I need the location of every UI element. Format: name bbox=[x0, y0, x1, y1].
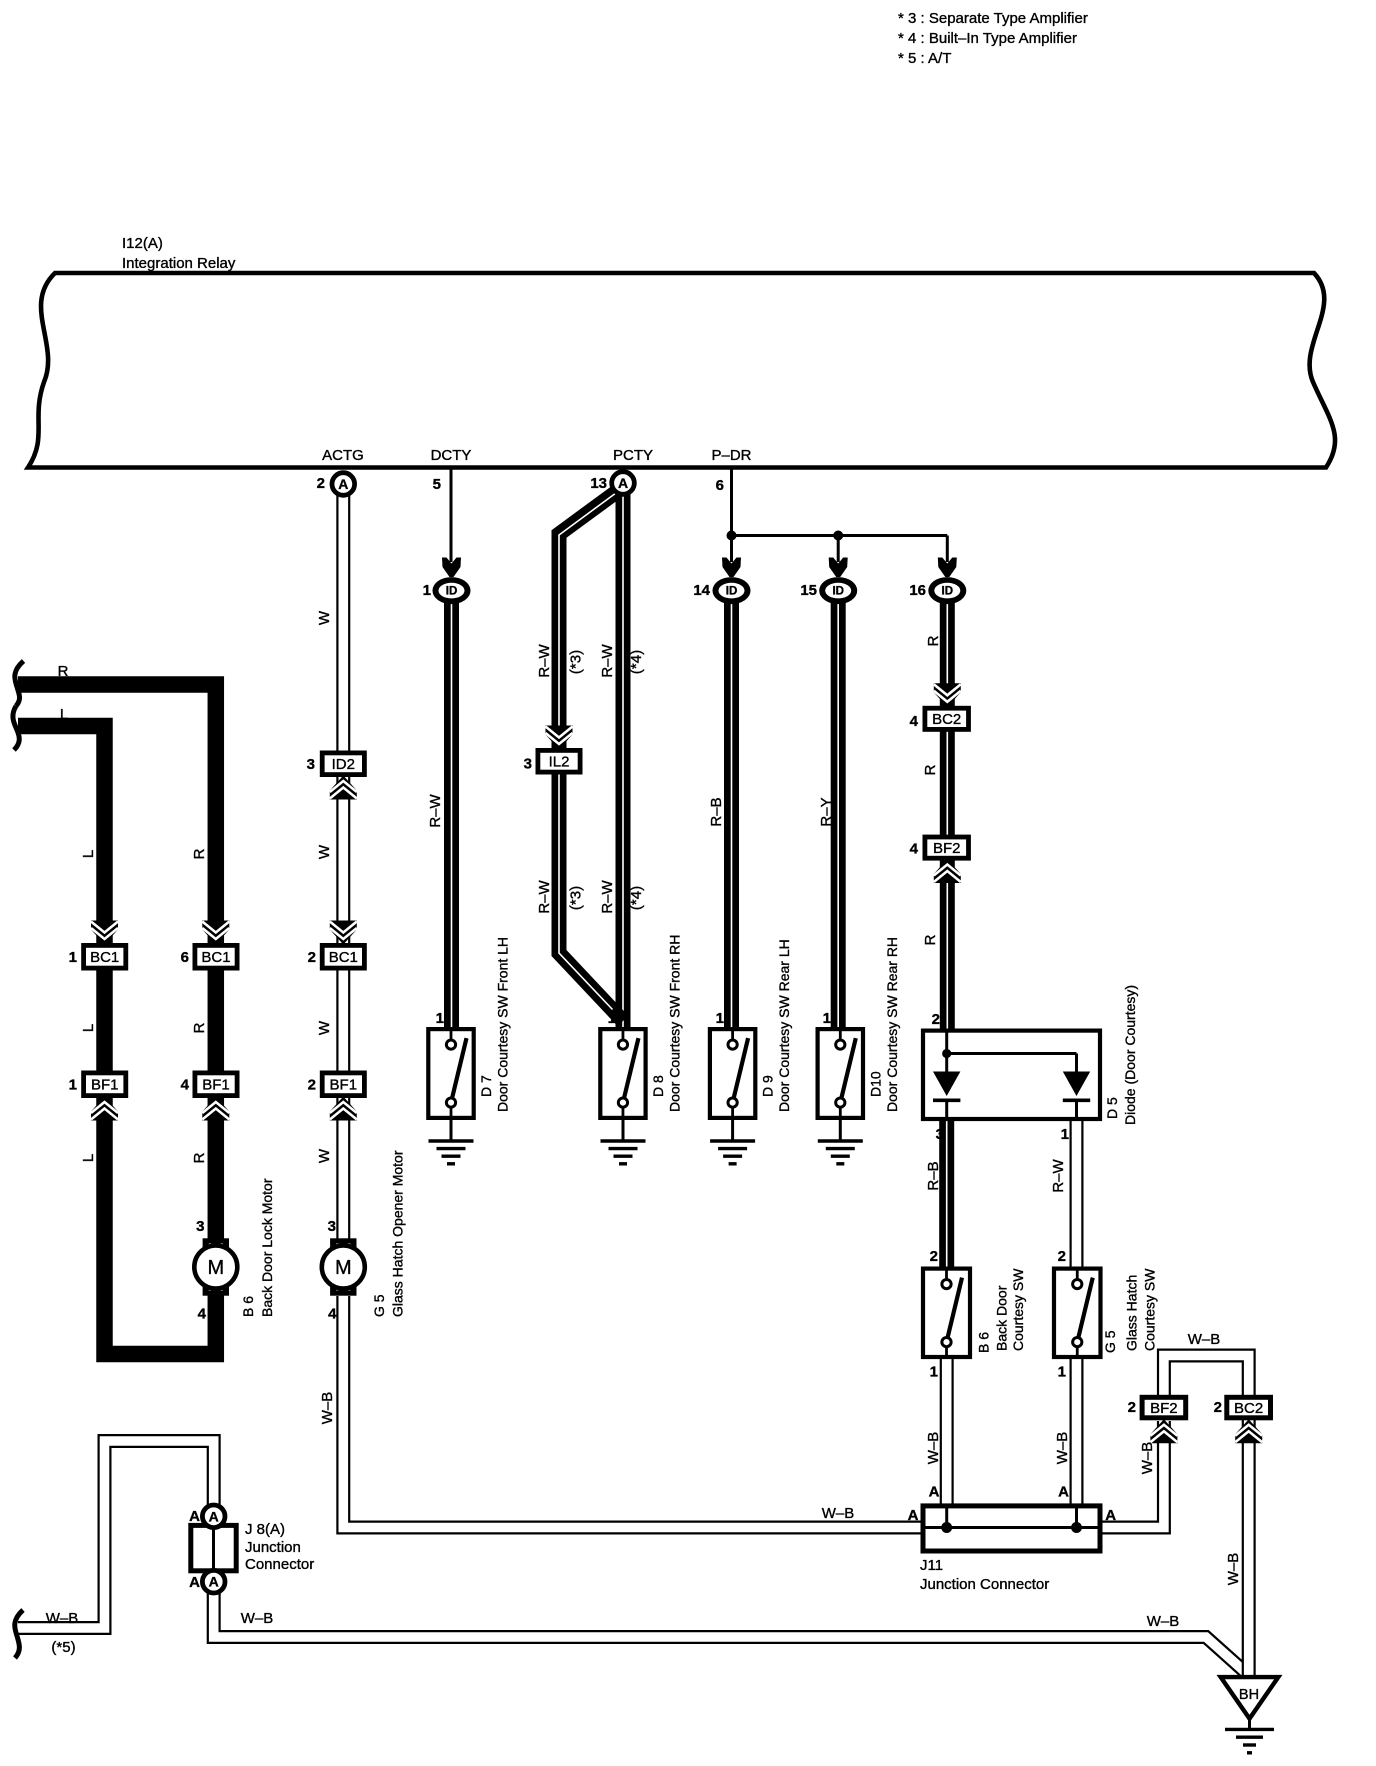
svg-text:Integration Relay: Integration Relay bbox=[122, 255, 236, 272]
svg-text:R: R bbox=[922, 764, 939, 775]
svg-text:13: 13 bbox=[590, 475, 607, 492]
svg-text:M: M bbox=[207, 1257, 224, 1279]
svg-text:I12(A): I12(A) bbox=[122, 235, 163, 252]
svg-text:2: 2 bbox=[317, 475, 325, 492]
svg-text:W–B: W–B bbox=[925, 1432, 942, 1465]
svg-text:BF2: BF2 bbox=[933, 840, 961, 857]
svg-text:A: A bbox=[929, 1484, 940, 1501]
svg-text:Door Courtesy SW Front RH: Door Courtesy SW Front RH bbox=[666, 935, 682, 1112]
svg-text:W–B: W–B bbox=[1054, 1432, 1071, 1465]
svg-text:R: R bbox=[925, 635, 942, 646]
svg-text:Connector: Connector bbox=[245, 1556, 314, 1573]
svg-text:2: 2 bbox=[308, 1077, 316, 1094]
svg-text:R: R bbox=[922, 934, 939, 945]
svg-text:W–B: W–B bbox=[822, 1505, 855, 1522]
svg-text:Glass Hatch: Glass Hatch bbox=[1124, 1275, 1140, 1351]
svg-text:A: A bbox=[908, 1507, 919, 1524]
svg-text:(*4): (*4) bbox=[628, 886, 645, 910]
svg-text:B 6: B 6 bbox=[976, 1332, 992, 1353]
svg-text:W: W bbox=[316, 610, 333, 625]
svg-text:W–B: W–B bbox=[1188, 1331, 1221, 1348]
svg-text:A: A bbox=[338, 476, 348, 492]
svg-text:ID: ID bbox=[446, 586, 458, 598]
svg-text:(*4): (*4) bbox=[628, 650, 645, 674]
svg-text:Junction Connector: Junction Connector bbox=[920, 1576, 1049, 1593]
svg-text:4: 4 bbox=[181, 1077, 190, 1094]
svg-text:W: W bbox=[316, 1020, 333, 1035]
svg-text:BC1: BC1 bbox=[329, 949, 358, 966]
svg-text:R–Y: R–Y bbox=[818, 797, 835, 826]
svg-text:Back Door: Back Door bbox=[994, 1285, 1010, 1351]
svg-text:Diode (Door Courtesy): Diode (Door Courtesy) bbox=[1122, 985, 1138, 1125]
svg-text:16: 16 bbox=[909, 582, 926, 599]
svg-text:J11: J11 bbox=[920, 1557, 943, 1574]
svg-text:R: R bbox=[58, 663, 69, 680]
svg-text:6: 6 bbox=[716, 477, 724, 494]
svg-text:(*3): (*3) bbox=[568, 886, 585, 910]
svg-text:3: 3 bbox=[307, 756, 315, 773]
svg-text:A: A bbox=[618, 475, 628, 491]
svg-text:A: A bbox=[1105, 1507, 1116, 1524]
svg-text:BC1: BC1 bbox=[90, 949, 119, 966]
svg-text:* 4 : Built–In Type Amplifier: * 4 : Built–In Type Amplifier bbox=[898, 30, 1077, 47]
svg-text:Glass Hatch Opener Motor: Glass Hatch Opener Motor bbox=[390, 1150, 406, 1317]
svg-text:Courtesy SW: Courtesy SW bbox=[1142, 1268, 1158, 1351]
svg-text:5: 5 bbox=[433, 476, 441, 493]
svg-text:P–DR: P–DR bbox=[711, 447, 751, 464]
svg-text:3: 3 bbox=[196, 1218, 204, 1235]
svg-text:W–B: W–B bbox=[241, 1610, 274, 1627]
svg-text:G 5: G 5 bbox=[371, 1294, 387, 1317]
svg-text:A: A bbox=[209, 1574, 219, 1590]
svg-text:R–W: R–W bbox=[599, 643, 616, 677]
svg-text:1: 1 bbox=[930, 1364, 938, 1381]
svg-text:(*3): (*3) bbox=[568, 650, 585, 674]
svg-text:* 3 : Separate Type Amplifier: * 3 : Separate Type Amplifier bbox=[898, 10, 1088, 27]
svg-text:Door Courtesy SW Front LH: Door Courtesy SW Front LH bbox=[495, 937, 511, 1112]
svg-text:Courtesy SW: Courtesy SW bbox=[1010, 1268, 1026, 1351]
svg-text:ID: ID bbox=[726, 586, 738, 598]
svg-text:Door Courtesy SW Rear LH: Door Courtesy SW Rear LH bbox=[776, 939, 792, 1112]
svg-text:6: 6 bbox=[181, 949, 189, 966]
svg-text:4: 4 bbox=[910, 841, 919, 858]
svg-text:1: 1 bbox=[716, 1010, 724, 1027]
svg-text:B 6: B 6 bbox=[240, 1296, 256, 1317]
svg-text:W–B: W–B bbox=[46, 1610, 79, 1627]
svg-text:BF1: BF1 bbox=[202, 1076, 230, 1093]
svg-text:D 8: D 8 bbox=[650, 1075, 666, 1097]
svg-text:R–W: R–W bbox=[536, 643, 553, 677]
svg-text:L: L bbox=[80, 1024, 97, 1032]
svg-text:2: 2 bbox=[930, 1248, 938, 1265]
svg-text:W–B: W–B bbox=[1139, 1442, 1156, 1475]
svg-text:A: A bbox=[189, 1508, 200, 1525]
svg-text:IL2: IL2 bbox=[549, 753, 570, 770]
svg-text:1: 1 bbox=[1061, 1126, 1069, 1143]
svg-text:D 9: D 9 bbox=[760, 1075, 776, 1097]
svg-text:1: 1 bbox=[423, 582, 431, 599]
svg-text:1: 1 bbox=[823, 1010, 831, 1027]
svg-text:Junction: Junction bbox=[245, 1539, 301, 1556]
svg-text:3: 3 bbox=[328, 1218, 336, 1235]
svg-text:Back Door Lock Motor: Back Door Lock Motor bbox=[259, 1178, 275, 1317]
svg-text:W: W bbox=[316, 844, 333, 859]
svg-text:2: 2 bbox=[308, 949, 316, 966]
svg-text:ACTG: ACTG bbox=[322, 447, 364, 464]
svg-text:4: 4 bbox=[198, 1306, 207, 1323]
svg-text:W: W bbox=[316, 1148, 333, 1163]
svg-text:1: 1 bbox=[69, 1077, 77, 1094]
svg-text:A: A bbox=[1058, 1484, 1069, 1501]
svg-text:G 5: G 5 bbox=[1102, 1330, 1118, 1353]
svg-text:ID: ID bbox=[942, 586, 954, 598]
svg-text:W–B: W–B bbox=[1147, 1613, 1180, 1630]
svg-text:BC2: BC2 bbox=[1234, 1400, 1263, 1417]
svg-text:A: A bbox=[189, 1574, 200, 1591]
svg-text:R–B: R–B bbox=[708, 797, 725, 826]
svg-text:3: 3 bbox=[936, 1126, 944, 1143]
svg-text:1: 1 bbox=[436, 1010, 444, 1027]
svg-text:R–B: R–B bbox=[925, 1161, 942, 1190]
svg-text:2: 2 bbox=[1128, 1399, 1136, 1416]
svg-text:1: 1 bbox=[1058, 1364, 1066, 1381]
svg-text:R: R bbox=[191, 1152, 208, 1163]
svg-text:D 7: D 7 bbox=[478, 1075, 494, 1097]
svg-text:L: L bbox=[80, 850, 97, 858]
svg-text:R: R bbox=[191, 848, 208, 859]
svg-text:3: 3 bbox=[524, 756, 532, 773]
svg-text:R–W: R–W bbox=[1050, 1158, 1067, 1192]
svg-text:L: L bbox=[60, 706, 68, 723]
svg-text:2: 2 bbox=[1214, 1399, 1222, 1416]
svg-text:W–B: W–B bbox=[1225, 1553, 1242, 1586]
svg-text:BF1: BF1 bbox=[91, 1076, 119, 1093]
svg-text:15: 15 bbox=[800, 582, 817, 599]
svg-text:BC2: BC2 bbox=[932, 711, 961, 728]
svg-text:4: 4 bbox=[328, 1306, 337, 1323]
svg-text:J 8(A): J 8(A) bbox=[245, 1521, 285, 1538]
svg-text:BC1: BC1 bbox=[201, 949, 230, 966]
svg-text:DCTY: DCTY bbox=[431, 447, 472, 464]
svg-text:A: A bbox=[209, 1508, 219, 1524]
svg-text:R: R bbox=[191, 1022, 208, 1033]
svg-text:R–W: R–W bbox=[536, 879, 553, 913]
svg-text:PCTY: PCTY bbox=[613, 447, 653, 464]
svg-text:BH: BH bbox=[1239, 1687, 1259, 1703]
svg-text:D 5: D 5 bbox=[1104, 1097, 1120, 1119]
svg-text:2: 2 bbox=[1058, 1248, 1066, 1265]
svg-text:14: 14 bbox=[693, 582, 710, 599]
svg-text:L: L bbox=[80, 1154, 97, 1162]
svg-text:BF1: BF1 bbox=[330, 1076, 358, 1093]
svg-text:ID: ID bbox=[832, 586, 844, 598]
svg-text:4: 4 bbox=[910, 713, 919, 730]
svg-text:1: 1 bbox=[608, 1010, 616, 1027]
svg-text:D10: D10 bbox=[867, 1071, 883, 1097]
svg-text:M: M bbox=[335, 1257, 352, 1279]
svg-text:BF2: BF2 bbox=[1150, 1400, 1178, 1417]
svg-text:R–W: R–W bbox=[427, 793, 444, 827]
svg-text:(*5): (*5) bbox=[51, 1639, 75, 1656]
svg-text:Door Courtesy SW Rear RH: Door Courtesy SW Rear RH bbox=[884, 937, 900, 1112]
svg-text:R–W: R–W bbox=[599, 879, 616, 913]
svg-text:1: 1 bbox=[69, 949, 77, 966]
svg-text:W–B: W–B bbox=[319, 1392, 336, 1425]
svg-text:* 5 : A/T: * 5 : A/T bbox=[898, 50, 951, 67]
svg-text:ID2: ID2 bbox=[332, 756, 355, 773]
svg-text:2: 2 bbox=[932, 1011, 940, 1028]
